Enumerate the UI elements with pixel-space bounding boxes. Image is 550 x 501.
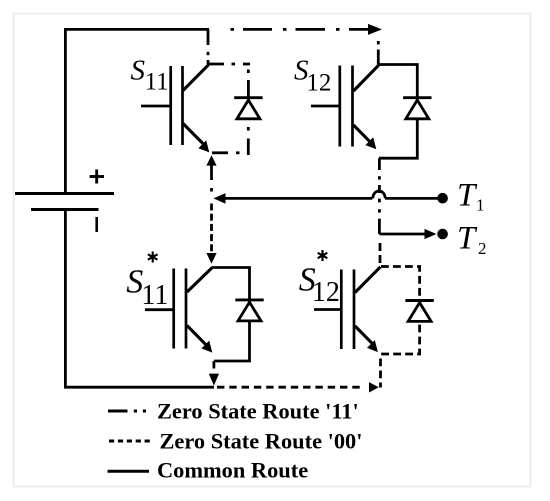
legend sample: dash-dot line for route '11' <box>108 410 146 413</box>
transistor S11* emitter arrow <box>201 341 212 353</box>
wire: zero-state route '11' top rail dash-dot <box>231 28 371 31</box>
diode D12* cathode bar <box>405 299 433 302</box>
battery plus label <box>90 170 105 184</box>
svg-text:12: 12 <box>306 70 331 97</box>
wire: common route left loop (top rail, left rail, battery leads, bottom rail) <box>65 29 214 387</box>
terminal T2 dot <box>437 229 448 240</box>
svg-text:1: 1 <box>476 196 485 215</box>
legend sample: solid line for common route <box>108 470 150 473</box>
transistor S11* collector diagonal <box>187 268 212 292</box>
asterisk of S12* <box>318 250 328 261</box>
transistor S11 emitter diagonal <box>183 124 203 144</box>
arrow: T1 line leftward arrowhead <box>214 193 226 204</box>
wire: dash-dot right leg S12 emitter to T2 junction <box>378 158 381 234</box>
svg-text:2: 2 <box>478 239 487 258</box>
transistor S12 emitter diagonal <box>354 125 371 142</box>
transistor S12* gate wire <box>314 308 340 311</box>
diode D12 triangle <box>406 100 429 119</box>
svg-text:Zero State Route '00': Zero State Route '00' <box>160 429 363 454</box>
diode D12* triangle <box>408 303 431 322</box>
arrow: T2 rightward arrowhead <box>425 229 437 239</box>
wire: dash-dot link collector to D11 cathode <box>232 64 251 100</box>
transistor S12* emitter arrow <box>367 340 378 352</box>
transistor S11 emitter arrow <box>198 140 209 152</box>
transistor S12* emitter diagonal <box>355 326 372 344</box>
wire: T2 horizontal line <box>379 233 425 236</box>
label S12 <box>294 54 331 96</box>
transistor S12 collector diagonal <box>354 65 380 91</box>
label S11 <box>131 55 169 96</box>
wire: T1 line hop over right leg <box>373 191 385 198</box>
transistor S12 gate wire <box>311 105 339 108</box>
wire: T1 line right of hop <box>385 197 437 200</box>
svg-text:12: 12 <box>312 277 340 308</box>
battery minus label <box>95 217 98 232</box>
arrow: route '11' upward into S11 emitter node <box>206 155 216 165</box>
transistor S11* gate bar <box>172 269 175 349</box>
arrow: route '00' rightward on bottom rail <box>369 382 379 392</box>
diode D11 cathode bar <box>234 96 262 99</box>
arrow: downward onto bottom rail from S11* <box>209 374 219 386</box>
battery V1 negative plate <box>31 208 99 211</box>
diode D11 triangle <box>237 100 260 119</box>
wire: dashed route '00' left leg T1 to S11* collector <box>210 204 213 252</box>
asterisk of S11* <box>148 252 158 263</box>
transistor S11* gate wire <box>145 308 173 311</box>
label T1 <box>457 178 485 215</box>
transistor S11 gate wire <box>141 105 170 108</box>
wire: S11* emitter to bottom rail <box>212 361 215 369</box>
transistor S11 collector diagonal <box>183 65 209 91</box>
transistor S11* body bar <box>185 269 188 349</box>
wire: S12 collector to D12 cathode <box>378 65 417 101</box>
wire: S11 collector stub <box>207 63 224 66</box>
svg-text:S: S <box>131 55 146 87</box>
diode D11* triangle <box>238 302 261 321</box>
transistor S12 body bar <box>351 66 354 147</box>
wire: dashed S12* collector to D12* cathode <box>380 267 420 300</box>
transistor S12* gate bar <box>340 270 343 350</box>
transistor S11* emitter diagonal <box>187 326 206 345</box>
svg-text:T: T <box>457 221 478 257</box>
wire: dash-dot from top rail to S12 collector <box>377 41 380 65</box>
wire: dashed D12* anode to S12* emitter node <box>381 323 420 354</box>
diode D12 cathode bar <box>403 96 431 99</box>
arrow: route '11' rightward on top rail <box>368 24 382 35</box>
label T2 <box>457 221 487 259</box>
wire: D11* anode to S11* emitter node <box>214 321 250 361</box>
diode D11* cathode bar <box>235 298 263 301</box>
wire: dashed S12* emitter down to bottom rail <box>379 359 382 388</box>
transistor S12* collector diagonal <box>355 267 381 293</box>
svg-text:Zero State Route '11': Zero State Route '11' <box>157 399 359 424</box>
transistor S12 emitter arrow <box>365 137 376 149</box>
wire: D12 anode to S12 emitter node <box>379 119 417 158</box>
wire: dash-dot link D11 anode to emitter node <box>212 127 248 155</box>
arrow: route '00' downward into S11* collector <box>206 253 216 264</box>
label S12* <box>299 262 340 308</box>
label S11* <box>126 264 168 311</box>
svg-text:T: T <box>457 178 478 214</box>
transistor S11 gate bar <box>169 66 172 145</box>
svg-text:11: 11 <box>145 68 169 95</box>
svg-text:11: 11 <box>141 280 168 311</box>
legend sample: dashed line for route '00' <box>109 440 150 443</box>
battery V1 positive plate <box>15 192 114 195</box>
node A: S11 collector drop from top rail (dash-dot) <box>207 29 210 64</box>
wire: S11* collector to D11* cathode <box>212 268 250 304</box>
wire: dashed route '00' bottom rail <box>217 386 365 389</box>
terminal T1 dot <box>437 193 448 204</box>
wire: dashed route '00' T2 junction to S12* collector <box>379 243 382 263</box>
wire: dash-dot below S11 emitter <box>210 165 213 192</box>
svg-text:Common Route: Common Route <box>157 457 308 482</box>
wire: T1 horizontal line <box>225 197 372 200</box>
transistor S11 body bar <box>181 66 184 145</box>
transistor S12* body bar <box>353 270 356 350</box>
transistor S12 gate bar <box>338 66 341 147</box>
